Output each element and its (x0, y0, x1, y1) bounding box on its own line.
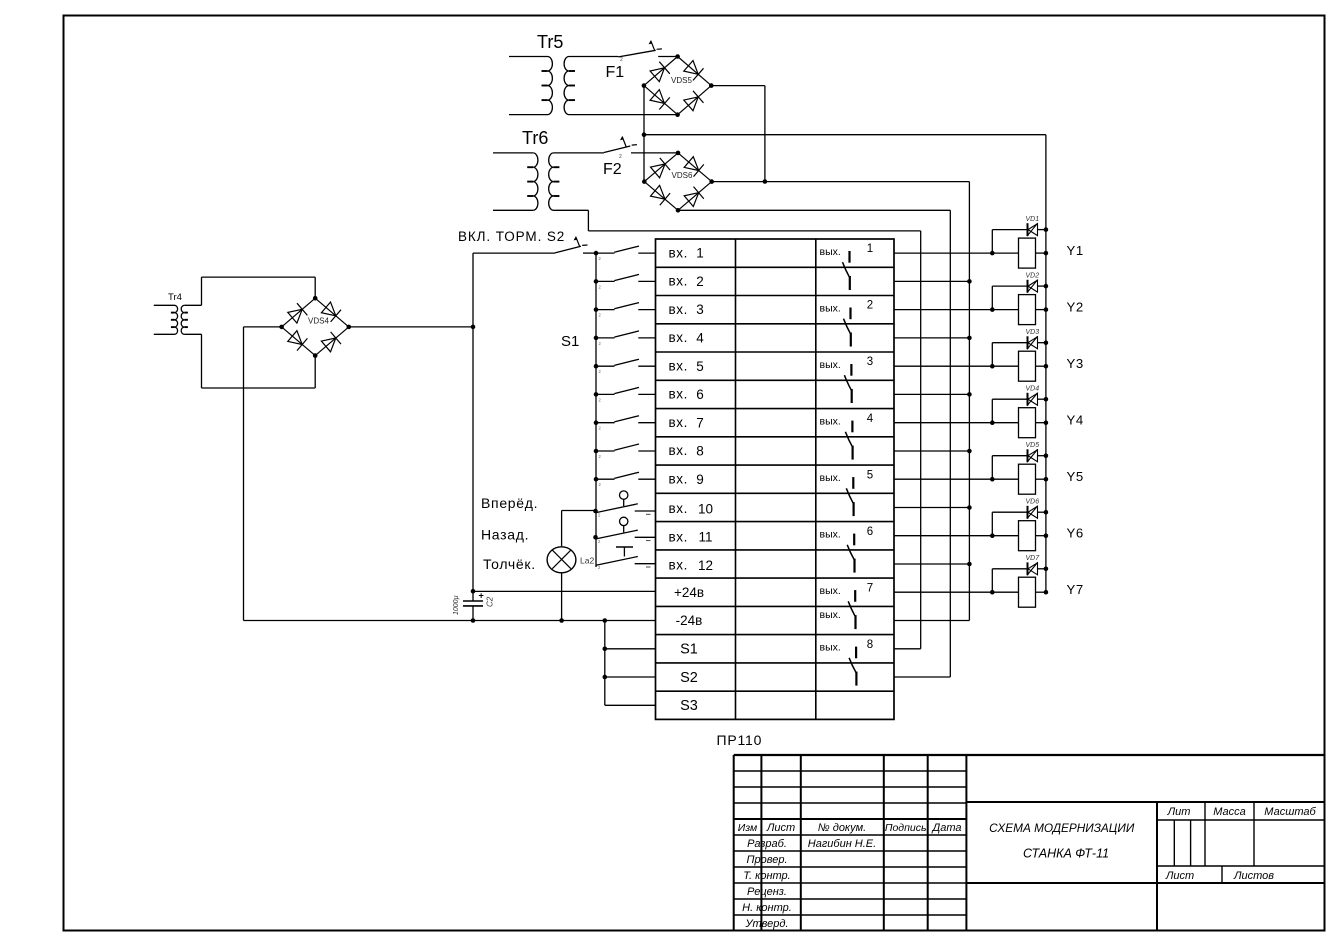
svg-text:ПР110: ПР110 (717, 732, 763, 748)
svg-text:VD4: VD4 (1026, 386, 1040, 393)
svg-text:вых.: вых. (820, 609, 841, 621)
svg-text:Tr5: Tr5 (537, 32, 563, 52)
svg-text:8: 8 (696, 444, 704, 459)
svg-text:+24в: +24в (674, 585, 704, 600)
svg-text:Н. контр.: Н. контр. (742, 902, 792, 914)
svg-text:Y6: Y6 (1067, 526, 1084, 541)
svg-text:вх.: вх. (669, 302, 688, 317)
svg-text:5: 5 (867, 469, 873, 481)
svg-text:Tr6: Tr6 (522, 128, 548, 148)
svg-text:La2: La2 (580, 556, 594, 566)
svg-text:6: 6 (696, 387, 704, 402)
svg-text:F2: F2 (603, 161, 622, 178)
svg-text:1000µ: 1000µ (453, 595, 460, 615)
svg-text:СТАНКА ФТ-11: СТАНКА ФТ-11 (1023, 847, 1109, 861)
svg-text:вых.: вых. (820, 472, 841, 484)
svg-text:вх.: вх. (669, 358, 688, 373)
svg-text:S1: S1 (561, 333, 579, 350)
svg-text:VD7: VD7 (1026, 555, 1041, 562)
svg-text:2: 2 (620, 57, 623, 63)
svg-text:вых.: вых. (820, 529, 841, 541)
svg-text:Y5: Y5 (1067, 469, 1084, 484)
svg-text:2: 2 (867, 300, 873, 312)
svg-text:VD6: VD6 (1026, 499, 1040, 506)
svg-text:S3: S3 (680, 698, 698, 714)
svg-text:вх.: вх. (669, 274, 688, 289)
svg-text:Лист: Лист (1165, 870, 1194, 882)
svg-text:11: 11 (698, 530, 712, 545)
svg-text:Утверд.: Утверд. (744, 918, 788, 930)
svg-text:4: 4 (867, 413, 874, 425)
svg-text:Вперёд.: Вперёд. (481, 495, 538, 511)
svg-text:Т. контр.: Т. контр. (743, 870, 790, 882)
svg-text:3: 3 (867, 356, 873, 368)
svg-text:Y4: Y4 (1067, 413, 1084, 428)
svg-text:вх.: вх. (669, 387, 688, 402)
svg-text:S2: S2 (680, 670, 698, 686)
svg-text:вых.: вых. (820, 359, 841, 371)
svg-text:Провер.: Провер. (747, 854, 788, 866)
svg-text:VD2: VD2 (1026, 273, 1040, 280)
svg-text:9: 9 (696, 472, 704, 487)
svg-text:Разраб.: Разраб. (747, 838, 787, 850)
svg-text:Масштаб: Масштаб (1264, 806, 1316, 818)
svg-text:вх.: вх. (669, 415, 688, 430)
svg-text:4: 4 (696, 331, 704, 346)
svg-text:Y3: Y3 (1067, 356, 1084, 371)
svg-text:вых.: вых. (820, 642, 841, 654)
svg-text:Реценз.: Реценз. (747, 886, 787, 898)
svg-text:+: + (479, 591, 484, 601)
svg-text:Толчёк.: Толчёк. (483, 556, 536, 572)
svg-text:№ докум.: № докум. (818, 822, 866, 834)
svg-text:6: 6 (867, 526, 873, 538)
svg-text:Листов: Листов (1233, 870, 1274, 882)
svg-text:1: 1 (867, 243, 873, 255)
svg-text:Tr4: Tr4 (168, 292, 182, 303)
svg-text:C2: C2 (486, 596, 495, 607)
svg-text:вх.: вх. (669, 558, 688, 573)
svg-text:Масса: Масса (1213, 806, 1246, 818)
svg-text:12: 12 (698, 558, 713, 573)
svg-text:Назад.: Назад. (481, 527, 529, 543)
svg-text:VD1: VD1 (1026, 216, 1040, 223)
svg-text:8: 8 (867, 639, 873, 651)
svg-text:ВКЛ. ТОРМ. S2: ВКЛ. ТОРМ. S2 (458, 229, 565, 244)
svg-text:вых.: вых. (820, 416, 841, 428)
svg-text:1: 1 (696, 246, 704, 261)
svg-text:вых.: вых. (820, 585, 841, 597)
svg-text:СХЕМА МОДЕРНИЗАЦИИ: СХЕМА МОДЕРНИЗАЦИИ (989, 821, 1135, 835)
svg-text:S1: S1 (680, 642, 698, 658)
svg-text:VDS6: VDS6 (672, 171, 693, 180)
svg-text:7: 7 (696, 415, 704, 430)
svg-text:2: 2 (619, 154, 622, 160)
svg-text:3: 3 (696, 302, 704, 317)
svg-text:F1: F1 (606, 64, 625, 81)
svg-text:Изм: Изм (738, 822, 757, 834)
svg-text:Нагибин Н.Е.: Нагибин Н.Е. (808, 838, 876, 850)
svg-text:VDS4: VDS4 (308, 317, 329, 326)
svg-text:Подпись: Подпись (885, 822, 927, 834)
svg-text:VD5: VD5 (1026, 442, 1040, 449)
svg-text:5: 5 (696, 359, 704, 374)
svg-text:7: 7 (867, 582, 873, 594)
svg-text:вх.: вх. (669, 443, 688, 458)
svg-text:10: 10 (698, 502, 713, 517)
svg-text:вх.: вх. (669, 330, 688, 345)
svg-text:вх.: вх. (669, 529, 688, 544)
svg-text:VD3: VD3 (1026, 329, 1040, 336)
svg-text:Y1: Y1 (1067, 243, 1084, 258)
svg-text:VDS5: VDS5 (671, 76, 692, 85)
svg-text:2: 2 (696, 274, 704, 289)
svg-text:вых.: вых. (820, 302, 841, 314)
svg-text:Y7: Y7 (1067, 582, 1084, 597)
svg-text:Y2: Y2 (1067, 299, 1084, 314)
svg-text:Лист: Лист (766, 822, 795, 834)
svg-text:вх.: вх. (669, 471, 688, 486)
svg-text:Лит: Лит (1167, 806, 1191, 818)
svg-text:-24в: -24в (676, 613, 703, 628)
svg-text:вх.: вх. (669, 501, 688, 516)
svg-text:вых.: вых. (820, 246, 841, 258)
svg-text:Дата: Дата (930, 822, 961, 834)
svg-text:вх.: вх. (669, 245, 688, 260)
